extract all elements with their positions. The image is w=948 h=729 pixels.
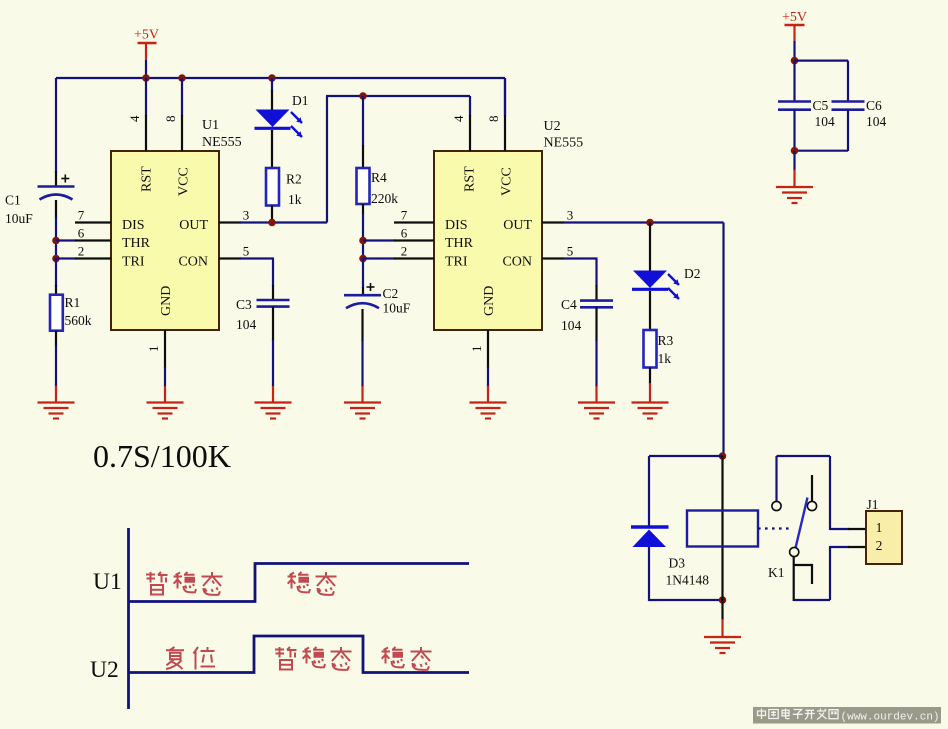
capacitor C6 [832, 100, 865, 103]
op-amp U1 NE555 body [111, 151, 219, 330]
capacitor C4 [580, 299, 613, 302]
svg-text:4: 4 [451, 115, 466, 122]
K1 moving contact pin [793, 557, 795, 602]
K1 armature [796, 498, 808, 549]
svg-text:VCC: VCC [177, 167, 192, 196]
svg-text:104: 104 [236, 317, 257, 332]
svg-text:1: 1 [469, 346, 484, 353]
wire R2 to OUT net [271, 206, 273, 224]
resistor R4 [357, 168, 370, 204]
op-amp U2 NE555 body [434, 151, 542, 330]
K1 fixed contact right stub [811, 475, 813, 501]
waveform U1 trace [130, 564, 470, 602]
watermark CJK text [758, 709, 766, 720]
svg-text:CON: CON [178, 255, 208, 270]
svg-text:6: 6 [401, 226, 408, 241]
wire R3 to ground [649, 368, 651, 385]
svg-text:1: 1 [876, 520, 883, 535]
waveform U2 trace [130, 636, 470, 673]
svg-text:8: 8 [163, 116, 178, 123]
U2 pin 4 wire [469, 96, 471, 116]
svg-text:U1: U1 [202, 118, 219, 133]
svg-text:C6: C6 [866, 98, 882, 113]
svg-text:+5V: +5V [134, 28, 159, 43]
wire node to ground [793, 151, 795, 171]
svg-text:C2: C2 [383, 286, 399, 301]
wire rail to D1 [271, 78, 273, 91]
wire net to R4 [362, 96, 364, 146]
U1 pin 6 wire [56, 239, 76, 241]
U1 pin 3 wire [219, 221, 241, 223]
node junction C5 top [791, 57, 799, 65]
svg-text:2: 2 [78, 244, 85, 259]
svg-text:0.7S/100K: 0.7S/100K [93, 438, 231, 474]
svg-text:4: 4 [127, 115, 142, 122]
connector J1 pin2 stub [848, 546, 866, 548]
svg-text:GND: GND [482, 286, 497, 316]
waveform U2 state 3 text [382, 647, 405, 667]
LED D2 [633, 271, 667, 289]
wire K1 top link [777, 455, 831, 457]
diode D3 [633, 530, 667, 548]
wire R4 to THR2/TRI2 [362, 204, 364, 214]
node junction R2/OUT1 [268, 219, 276, 227]
wire D3 anode riser [648, 456, 650, 526]
wire OUT2 to D2 [649, 223, 651, 272]
svg-text:RST: RST [140, 166, 155, 192]
wire C3 to ground [272, 307, 274, 341]
wire +5V stem to C5 node [793, 41, 795, 61]
node junction rail/U1 pin8 [178, 74, 186, 82]
svg-text:VCC: VCC [500, 167, 515, 196]
capacitor C1 [38, 185, 75, 188]
waveform axis [127, 528, 130, 709]
svg-text:10uF: 10uF [383, 301, 411, 316]
U2 pin 1 wire [487, 330, 489, 368]
relay K1 coil box [687, 511, 758, 547]
U1 pin 5 wire [219, 257, 241, 259]
wire relay top branch to D3 [649, 455, 723, 457]
svg-text:DIS: DIS [122, 218, 145, 233]
svg-text:1: 1 [146, 346, 161, 353]
U2 pin 8 wire [504, 78, 506, 116]
LED D1 [256, 110, 290, 128]
svg-text:THR: THR [122, 236, 151, 251]
svg-text:5: 5 [567, 244, 574, 259]
ground below C4 [578, 401, 615, 403]
svg-text:J1: J1 [867, 497, 879, 512]
node junction relay top [719, 452, 727, 460]
svg-text:1N4148: 1N4148 [666, 573, 710, 588]
ground below C5/C6 [776, 186, 813, 188]
wire D3 to bottom rail [648, 547, 650, 601]
waveform U2 state 2 text [275, 647, 297, 670]
node junction OUT2/D2 [646, 219, 654, 227]
ground below C3 [255, 401, 292, 403]
wire C6 top drop [847, 61, 849, 102]
svg-text:7: 7 [401, 208, 408, 223]
svg-text:10uF: 10uF [5, 211, 33, 226]
ground below U1 [147, 401, 184, 403]
ground below R1 [38, 401, 75, 403]
svg-text:C5: C5 [813, 98, 829, 113]
svg-text:TRI: TRI [445, 255, 468, 270]
wire D1 to R2 [271, 130, 273, 168]
K1 fixed contact right [807, 501, 816, 510]
wire C4 to ground [595, 307, 597, 341]
svg-text:5: 5 [243, 244, 250, 259]
svg-text:2: 2 [401, 244, 408, 259]
wire C2 to ground [361, 309, 363, 341]
wire C5/C6 top rail [795, 59, 849, 61]
relay K1 actuation dashed link [758, 527, 792, 529]
svg-text:GND: GND [159, 286, 174, 316]
svg-text:(www.ourdev.cn): (www.ourdev.cn) [841, 712, 940, 724]
node junction C5 bottom [791, 147, 799, 155]
capacitor C5 [778, 100, 811, 103]
K1 fixed contact left [772, 501, 781, 510]
svg-text:THR: THR [445, 236, 474, 251]
svg-text:R2: R2 [286, 172, 302, 187]
K1 fixed contact left wire [775, 456, 777, 501]
svg-text:D2: D2 [684, 266, 701, 281]
resistor R2 [266, 168, 279, 206]
node junction relay bottom [719, 596, 727, 604]
svg-text:OUT: OUT [503, 218, 532, 233]
U1 pin 8 wire [181, 78, 183, 116]
K1 bracket [794, 565, 812, 584]
svg-text:1k: 1k [658, 351, 672, 366]
svg-text:220k: 220k [371, 191, 398, 206]
wire relay to ground [721, 600, 723, 620]
capacitor C2 plus sign [367, 286, 375, 288]
wire K1 link riser to J1 pin1 [829, 456, 831, 530]
node junction OUT1/R4 [359, 92, 367, 100]
wire CON1 to C3 [272, 259, 274, 287]
U1 pin 2 wire [56, 257, 76, 259]
svg-text:D1: D1 [292, 93, 309, 108]
wire C5 top drop [793, 61, 795, 102]
ground below C2 [344, 401, 381, 403]
svg-text:3: 3 [567, 208, 574, 223]
svg-text:RST: RST [463, 166, 478, 192]
U2 pin 6 wire [363, 239, 395, 241]
svg-text:104: 104 [561, 318, 582, 333]
wire OUT1 riser [326, 96, 328, 223]
relay K1 coil pin through [721, 456, 723, 600]
node junction rail/D1 [268, 74, 276, 82]
U2 pin 5 wire [542, 257, 564, 259]
svg-text:TRI: TRI [122, 255, 145, 270]
svg-text:8: 8 [486, 116, 501, 123]
wire R1 to ground [55, 331, 57, 346]
ground below U2 [470, 401, 507, 403]
svg-text:C1: C1 [5, 193, 21, 208]
wire C1 to TRI junctions [55, 200, 57, 218]
svg-text:U2: U2 [544, 119, 561, 134]
resistor R1 [50, 295, 63, 331]
svg-text:NE555: NE555 [202, 135, 242, 150]
connector J1 pin1 stub [848, 528, 866, 530]
resistor R3 [644, 330, 657, 368]
node junction R4/TRI2 [359, 255, 367, 263]
U1 pin 7 wire [75, 221, 111, 223]
ground below R3 [632, 401, 669, 403]
wire relay bottom branch [649, 599, 723, 601]
svg-text:R4: R4 [371, 170, 387, 185]
wire C5 bottom drop [793, 110, 795, 151]
svg-text:K1: K1 [768, 565, 785, 580]
svg-text:3: 3 [243, 208, 250, 223]
capacitor C2 [344, 294, 381, 297]
svg-text:C3: C3 [236, 297, 252, 312]
wire rail down to C1 [55, 78, 57, 172]
wire K1 bottom rail [794, 599, 830, 601]
LED D2 arrows [668, 274, 679, 285]
node junction R4/THR2 [359, 237, 367, 245]
svg-text:+5V: +5V [782, 10, 807, 25]
U2 pin 2 wire [363, 257, 395, 259]
wire junction down to R1 [55, 258, 57, 286]
LED D1 arrows [291, 112, 302, 123]
watermark bar [753, 707, 941, 724]
wire junction to C2 [362, 258, 364, 288]
U2 pin 7 wire [394, 221, 434, 223]
svg-text:R1: R1 [65, 295, 81, 310]
wire top +5V rail [56, 77, 505, 79]
svg-text:560k: 560k [65, 313, 92, 328]
wire rail corner down to U2 pin 8 [504, 78, 506, 115]
svg-text:1k: 1k [288, 192, 302, 207]
svg-text:NE555: NE555 [544, 136, 584, 151]
diode D3 cathode bar [631, 525, 669, 528]
svg-text:U2: U2 [90, 657, 119, 683]
K1 moving contact [790, 547, 799, 556]
wire K1 rail riser to J1 pin2 [829, 546, 831, 600]
wire +5V stem to rail [145, 60, 147, 79]
U1 pin 1 wire [164, 330, 166, 368]
svg-text:7: 7 [78, 208, 85, 223]
wire OUT1 horizontal to U2 pin4 [326, 95, 470, 97]
wire C6 bottom drop [847, 110, 849, 151]
svg-text:OUT: OUT [179, 218, 208, 233]
svg-text:6: 6 [78, 226, 85, 241]
svg-text:U1: U1 [93, 569, 122, 595]
waveform U1 state 2 text [288, 572, 311, 592]
wire CON2 to C4 [595, 259, 597, 287]
connector J1 body [866, 511, 902, 564]
svg-text:DIS: DIS [445, 218, 468, 233]
ground below relay [704, 636, 741, 638]
svg-text:104: 104 [866, 114, 887, 129]
svg-text:CON: CON [502, 255, 532, 270]
capacitor C1 plus sign [61, 178, 69, 180]
U1 pin 4 wire [145, 78, 147, 116]
svg-text:2: 2 [876, 538, 883, 553]
node junction C1/TRI [52, 255, 60, 263]
svg-text:R3: R3 [658, 333, 674, 348]
waveform U1 state 1 text [146, 572, 168, 595]
svg-text:104: 104 [815, 114, 836, 129]
U2 pin 3 wire [542, 221, 564, 223]
svg-text:D3: D3 [669, 556, 686, 571]
node junction C1/THR [52, 237, 60, 245]
wire D2 to R3 [649, 291, 651, 330]
capacitor C3 [257, 299, 290, 302]
wire C5/C6 bottom rail [795, 150, 849, 152]
wire OUT2 riser to relay [722, 223, 724, 457]
waveform U2 state 1 text [166, 647, 184, 669]
svg-text:C4: C4 [561, 297, 577, 312]
node junction rail/U1 pin4 [142, 74, 150, 82]
